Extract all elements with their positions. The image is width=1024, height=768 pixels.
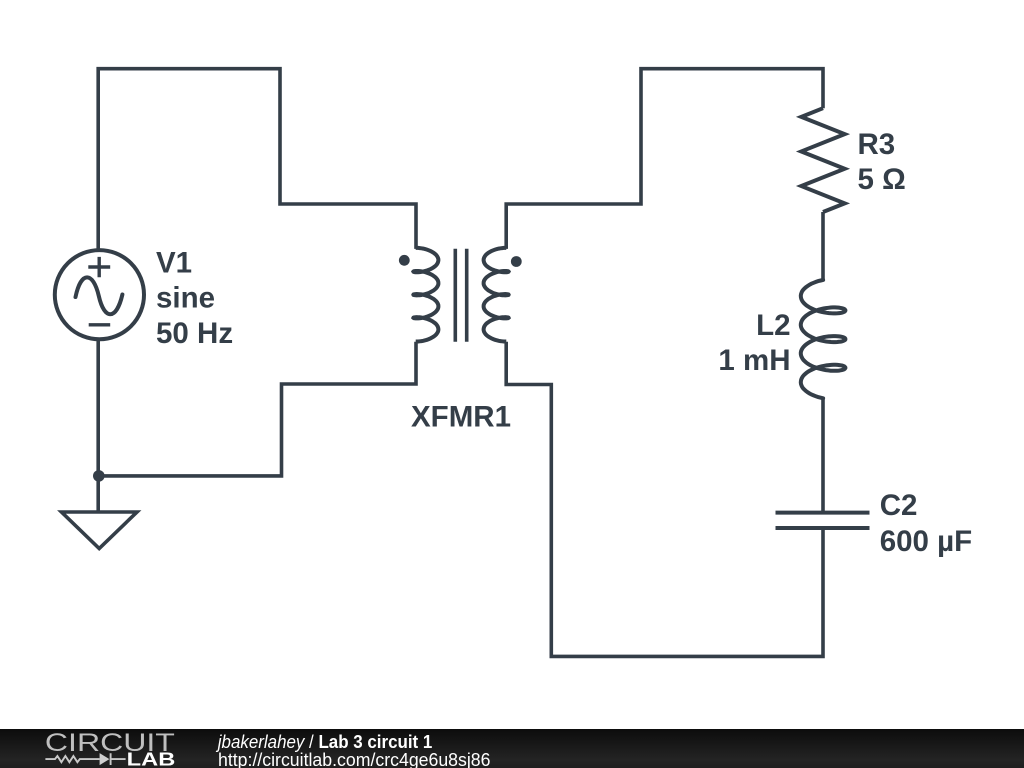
- svg-text:http://circuitlab.com/crc4ge6u: http://circuitlab.com/crc4ge6u8sj86: [218, 750, 491, 768]
- svg-text:L2: L2: [756, 309, 790, 342]
- transformer XFMR1 primary winding: [413, 248, 438, 342]
- junction node: [93, 470, 105, 482]
- wire transformer secondary top to R3: [506, 69, 823, 249]
- svg-text:600 µF: 600 µF: [880, 525, 972, 558]
- logo resistor-diode glyph: [45, 753, 125, 765]
- ground: [62, 512, 138, 549]
- transformer dot primary: [399, 255, 410, 266]
- resistor R3: [801, 108, 844, 212]
- voltage source V1 circle: [55, 250, 144, 339]
- wire top-left rail: [98, 69, 416, 250]
- svg-text:C2: C2: [880, 489, 918, 522]
- svg-text:R3: R3: [858, 128, 896, 161]
- svg-text:XFMR1: XFMR1: [411, 400, 511, 433]
- wire junction row to transformer primary bottom: [98, 342, 416, 476]
- wire R3 to L2: [821, 212, 825, 280]
- V1 sine waveform: [76, 277, 123, 314]
- V1 minus sign: [89, 323, 111, 326]
- wire transformer secondary bottom to bottom rail: [506, 342, 823, 657]
- inductor L2: [801, 280, 846, 398]
- svg-text:sine: sine: [156, 281, 215, 314]
- logo diode triangle: [100, 753, 110, 765]
- svg-text:1 mH: 1 mH: [718, 344, 790, 377]
- wire V1 bottom to junction: [96, 340, 100, 476]
- svg-text:5 Ω: 5 Ω: [858, 163, 906, 196]
- transformer XFMR1 secondary winding: [484, 248, 509, 342]
- svg-text:V1: V1: [156, 246, 192, 279]
- V1 plus sign: [88, 257, 110, 277]
- capacitor C2: [776, 513, 870, 528]
- transformer dot secondary: [511, 256, 522, 267]
- wire L2 to C2: [821, 398, 825, 512]
- svg-text:LAB: LAB: [127, 749, 176, 768]
- wire junction to ground: [96, 476, 100, 512]
- transformer core: [455, 249, 466, 342]
- svg-text:50 Hz: 50 Hz: [156, 317, 233, 350]
